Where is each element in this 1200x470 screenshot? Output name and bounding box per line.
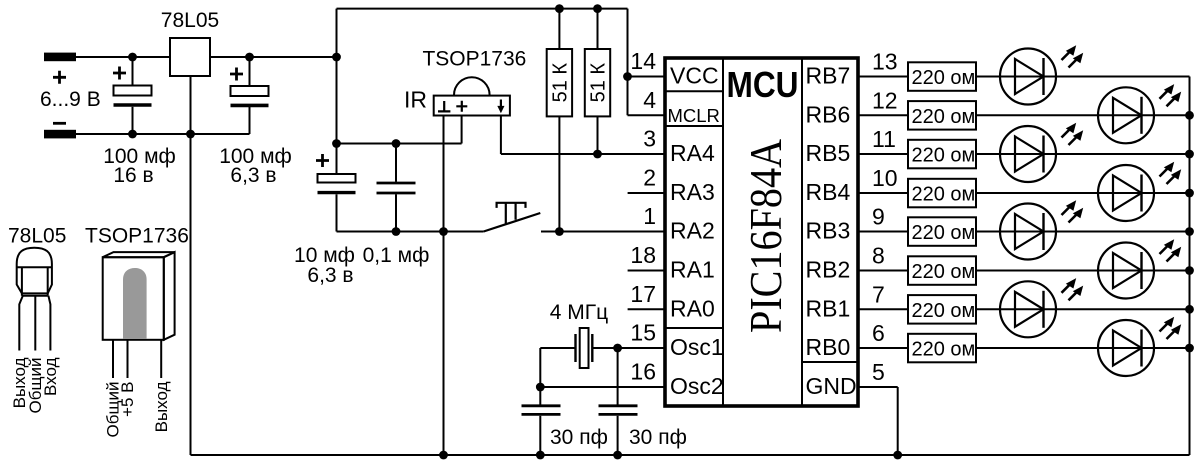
wire resistor to LED HL7 <box>976 308 1190 310</box>
LED HL5 emission arrows <box>1062 205 1073 216</box>
svg-text:RB0: RB0 <box>806 334 851 360</box>
junction riser / mid line <box>332 139 341 148</box>
TSOP1736 package top face <box>103 252 175 257</box>
svg-text:30 пф: 30 пф <box>550 426 608 449</box>
junction IR ground pin <box>439 227 448 236</box>
svg-text:RA0: RA0 <box>670 295 715 321</box>
resistor R1 51K <box>558 9 560 232</box>
C1 polarity plus <box>113 67 126 80</box>
LED HL4 <box>1098 165 1154 221</box>
svg-text:6...9 В: 6...9 В <box>40 88 101 111</box>
junction LED rail row 7 <box>1185 344 1194 353</box>
wire RB0 to resistor <box>858 347 908 349</box>
svg-text:220 ом: 220 ом <box>912 145 976 167</box>
resistor R7 220 Ohm <box>908 217 976 246</box>
LED HL7 emission arrows <box>1062 282 1073 293</box>
78L05 package legs <box>19 296 23 351</box>
resistor R4 220 Ohm <box>908 101 976 130</box>
junction C6 bottom rail <box>613 451 622 460</box>
resistor R6 220 Ohm <box>908 179 976 208</box>
junction regulator output / riser <box>332 53 341 62</box>
svg-text:2: 2 <box>643 165 656 191</box>
junction LED rail row 3 <box>1185 189 1194 198</box>
svg-text:10: 10 <box>872 165 898 191</box>
svg-text:0,1 мф: 0,1 мф <box>363 244 430 267</box>
svg-text:RB5: RB5 <box>806 140 851 166</box>
wire crystal to Osc2 <box>540 348 575 405</box>
svg-text:16 в: 16 в <box>113 164 153 187</box>
junction LED rail row 4 <box>1185 227 1194 236</box>
IR pin3 out arrow symbol <box>500 100 502 110</box>
junction LED rail row 2 <box>1185 150 1194 159</box>
resistor R9 220 Ohm <box>908 295 976 324</box>
capacitor C1 100uF 16V <box>132 57 134 86</box>
wire RB5 to resistor <box>858 153 908 155</box>
junction Osc1 / C6 <box>613 344 622 353</box>
wire RB7 to resistor <box>858 76 908 78</box>
svg-text:3: 3 <box>643 126 656 152</box>
svg-text:9: 9 <box>872 204 885 230</box>
wire regulator output <box>210 56 337 58</box>
LED HL2 emission arrows <box>1160 88 1171 99</box>
LED HL7 <box>1000 281 1056 337</box>
wire +5V mid line to IR receiver <box>337 116 462 144</box>
wire ground link line <box>337 231 484 233</box>
junction C4 bottom <box>392 227 401 236</box>
capacitor C5 30pF <box>522 404 561 407</box>
svg-text:MCU: MCU <box>727 64 799 105</box>
battery minus terminal <box>44 130 76 139</box>
wire bottom ground rail <box>191 454 1190 456</box>
svg-text:PIC16F84A: PIC16F84A <box>740 139 791 333</box>
wire Osc2 line <box>540 386 665 388</box>
LED HL3 <box>1000 126 1056 182</box>
battery plus sign <box>53 71 66 84</box>
svg-text:RA4: RA4 <box>670 140 715 166</box>
wire RB6 to resistor <box>858 114 908 116</box>
C3 polarity plus <box>316 154 329 167</box>
svg-text:14: 14 <box>630 48 656 74</box>
wire IR ground pin <box>443 116 445 456</box>
junction C2 top <box>245 53 254 62</box>
resistor R3 220 Ohm <box>908 62 976 91</box>
svg-text:MCLR: MCLR <box>668 105 720 126</box>
svg-text:17: 17 <box>630 281 656 307</box>
junction GND bottom rail <box>893 451 902 460</box>
capacitor C4 0.1uF <box>395 144 397 182</box>
svg-text:TSOP1736: TSOP1736 <box>85 225 189 248</box>
wire battery minus rail <box>76 133 250 135</box>
wire resistor to LED HL6 <box>976 270 1190 272</box>
battery plus terminal <box>44 53 76 62</box>
svg-text:+5 В: +5 В <box>118 382 137 417</box>
resistor R10 220 Ohm <box>908 334 976 363</box>
junction LED rail row 5 <box>1185 266 1194 275</box>
svg-text:5: 5 <box>872 359 885 385</box>
svg-text:TSOP1736: TSOP1736 <box>422 48 526 71</box>
junction C1 top <box>128 53 137 62</box>
svg-text:6: 6 <box>872 320 885 346</box>
crystal ZQ1 4MHz <box>591 334 593 362</box>
svg-text:RB1: RB1 <box>806 295 851 321</box>
wire +5V top rail <box>337 8 628 10</box>
svg-text:78L05: 78L05 <box>161 9 219 32</box>
wire IR output to RA4 <box>501 116 665 155</box>
IR receiver dome <box>454 77 490 95</box>
wire resistor to LED HL4 <box>976 192 1190 194</box>
MCU inner column lines <box>723 58 802 406</box>
LED HL8 <box>1098 320 1154 376</box>
LED HL1 <box>1000 49 1056 105</box>
svg-text:RB4: RB4 <box>806 179 851 205</box>
svg-text:11: 11 <box>872 126 896 152</box>
junction R2 top rail <box>593 4 602 13</box>
svg-text:Выход: Выход <box>152 381 171 432</box>
svg-text:12: 12 <box>872 87 898 113</box>
junction C1 bottom <box>128 130 137 139</box>
wire resistor to LED HL2 <box>976 114 1190 116</box>
svg-text:1: 1 <box>643 203 656 229</box>
resistor R5 220 Ohm <box>908 140 976 169</box>
junction LED rail row 6 <box>1185 305 1194 314</box>
wire VCC/MCLR feed <box>628 9 666 116</box>
svg-text:220 ом: 220 ом <box>912 339 976 361</box>
wire RB4 to resistor <box>858 192 908 194</box>
78L05 package TO-92 body <box>17 248 52 294</box>
IR receiver U3 TSOP1736 symbol <box>434 96 510 116</box>
svg-text:RA3: RA3 <box>670 179 715 205</box>
pin stub RA1 <box>628 270 665 272</box>
svg-text:30 пф: 30 пф <box>629 426 687 449</box>
capacitor C2 100uF 6.3V <box>249 57 251 86</box>
junction regulator ground / minus rail <box>186 130 195 139</box>
wire button to RA2 <box>541 231 665 233</box>
MCU U1 PIC16F84A box <box>665 58 858 406</box>
svg-text:13: 13 <box>872 49 898 75</box>
wire resistor to LED HL3 <box>976 153 1190 155</box>
wire regulator ground <box>190 76 192 455</box>
wire resistor to LED HL8 <box>976 347 1190 349</box>
junction crystal / Osc2 <box>536 383 545 392</box>
capacitor C3 10uF 6.3V <box>336 144 338 175</box>
svg-text:4: 4 <box>643 87 656 113</box>
junction R1 top rail <box>555 4 564 13</box>
wire +5V vertical riser <box>336 9 338 144</box>
svg-text:IR: IR <box>404 87 427 113</box>
svg-text:220 ом: 220 ом <box>912 300 976 322</box>
push button SB1 <box>484 213 541 232</box>
svg-text:VCC: VCC <box>670 63 719 89</box>
wire RB1 to resistor <box>858 308 908 310</box>
resistor R8 220 Ohm <box>908 256 976 285</box>
wire RB2 to resistor <box>858 270 908 272</box>
pin stub RA3 <box>628 192 665 194</box>
svg-text:220 ом: 220 ом <box>912 222 976 244</box>
svg-text:8: 8 <box>872 243 885 269</box>
svg-text:18: 18 <box>630 242 656 268</box>
svg-text:220 ом: 220 ом <box>912 184 976 206</box>
C2 polarity plus <box>230 68 243 81</box>
svg-text:RA1: RA1 <box>670 257 715 283</box>
svg-text:6,3 в: 6,3 в <box>307 264 353 287</box>
wire Osc1 to crystal <box>592 347 665 349</box>
LED HL6 <box>1098 243 1154 299</box>
LED HL2 <box>1098 87 1154 143</box>
svg-text:220 ом: 220 ом <box>912 106 976 128</box>
svg-text:Osc2: Osc2 <box>670 373 724 399</box>
junction VCC feed <box>623 72 632 81</box>
svg-text:4 МГц: 4 МГц <box>550 301 608 324</box>
LED HL8 emission arrows <box>1160 321 1171 332</box>
IR pin2 plus symbol <box>456 101 467 112</box>
svg-text:15: 15 <box>630 320 656 346</box>
LED HL3 emission arrows <box>1062 127 1073 138</box>
LED HL6 emission arrows <box>1160 244 1171 255</box>
junction button / R1 <box>555 227 564 236</box>
svg-text:RB3: RB3 <box>806 218 851 244</box>
resistor R2 51K <box>597 9 599 154</box>
junction C4 top <box>392 139 401 148</box>
TSOP1736 package side face <box>164 252 175 340</box>
svg-text:Вход: Вход <box>41 357 60 396</box>
svg-text:16: 16 <box>630 359 656 385</box>
wire battery plus to regulator <box>76 56 170 58</box>
IR pin1 ground symbol <box>438 101 450 111</box>
LED HL5 <box>1000 204 1056 260</box>
svg-text:51 К: 51 К <box>549 63 571 103</box>
junction R2 / RA4 line <box>593 150 602 159</box>
TSOP1736 package front face <box>103 257 164 340</box>
TSOP1736 package lens <box>123 268 147 339</box>
svg-text:7: 7 <box>872 281 885 307</box>
svg-text:78L05: 78L05 <box>8 225 66 248</box>
battery minus sign <box>53 122 66 125</box>
wire GND pin to bottom rail <box>858 387 898 455</box>
svg-text:RB7: RB7 <box>806 63 851 89</box>
wire LED common rail <box>1189 77 1191 456</box>
TSOP1736 package legs <box>113 340 161 378</box>
wire RB3 to resistor <box>858 231 908 233</box>
svg-text:RB6: RB6 <box>806 101 851 127</box>
wire resistor to LED HL5 <box>976 231 1190 233</box>
MCU cell separators <box>665 91 858 362</box>
LED HL4 emission arrows <box>1160 166 1171 177</box>
junction C5 bottom rail <box>536 451 545 460</box>
capacitor C6 30pF <box>617 348 619 405</box>
svg-text:220 ом: 220 ом <box>912 261 976 283</box>
voltage regulator U2 78L05 <box>170 38 210 76</box>
svg-text:51 К: 51 К <box>588 63 610 103</box>
junction LED rail row 1 <box>1185 111 1194 120</box>
wire resistor to LED HL1 <box>976 76 1190 78</box>
svg-text:GND: GND <box>806 373 857 399</box>
junction IR ground bottom rail <box>439 451 448 460</box>
LED HL1 emission arrows <box>1062 50 1073 61</box>
pin stub RA0 <box>628 308 665 310</box>
svg-text:RB2: RB2 <box>806 257 851 283</box>
svg-text:220 ом: 220 ом <box>912 67 976 89</box>
svg-text:RA2: RA2 <box>670 218 715 244</box>
svg-text:6,3 в: 6,3 в <box>230 164 276 187</box>
svg-text:Osc1: Osc1 <box>670 334 724 360</box>
